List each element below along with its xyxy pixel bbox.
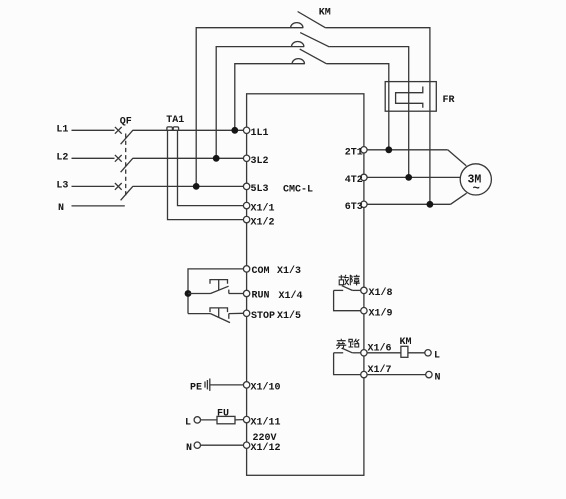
svg-text:L2: L2 [56, 153, 68, 164]
label KM (coil) [400, 337, 412, 348]
label 3L2 [251, 156, 269, 167]
wire riser L2 to KM contact 2 [216, 47, 304, 159]
svg-text:N: N [58, 203, 64, 214]
wire X1/7 to N [367, 374, 426, 376]
wire L1 to TA1 and 1L1 [133, 129, 244, 131]
breaker QF pole 3 [115, 183, 133, 200]
junction 6T3/FR [427, 201, 434, 208]
terminal STOP X1/5 [243, 310, 249, 316]
wire FR to 4T2 junction [408, 82, 410, 178]
fuse FU [217, 416, 235, 423]
svg-text:QF: QF [120, 116, 132, 127]
wire 6T3 row [367, 203, 450, 205]
svg-text:X1/10: X1/10 [251, 382, 281, 394]
wire 6T3 to motor [451, 193, 467, 204]
svg-text:~: ~ [473, 181, 480, 195]
svg-text:RUN: RUN [252, 291, 270, 302]
terminal 4T2 [361, 174, 367, 180]
svg-text:L: L [434, 351, 440, 362]
svg-text:TA1: TA1 [166, 115, 184, 126]
wire KM contact 3 to FR [327, 64, 389, 82]
junction 2T1/FR [385, 146, 392, 153]
push button STOP (NC) [188, 308, 243, 323]
label COM X1/3 [252, 265, 302, 277]
label X1/7 [368, 364, 392, 376]
wire L2 to 3L2 [133, 157, 244, 159]
terminal X1/6 [361, 350, 367, 356]
wire L3 to 5L3 [133, 185, 244, 187]
terminal X1/2 [243, 216, 249, 222]
junction on L2 [213, 155, 220, 162]
node L2 label [56, 153, 68, 164]
terminal RUN X1/4 [243, 290, 249, 296]
terminal 5L3 [243, 183, 249, 189]
label X1/2 [251, 216, 275, 228]
wire N to X1/12 [201, 444, 244, 446]
breaker QF label [120, 116, 132, 127]
wire TA1 secondary to X1/1 [178, 131, 244, 206]
label 6T3 [345, 202, 363, 213]
motor 3M [460, 164, 491, 195]
svg-text:X1/5: X1/5 [277, 310, 301, 322]
ground PE symbol [205, 379, 210, 391]
breaker QF linkage (dashed) [125, 134, 127, 198]
wire 4T2 row [367, 176, 460, 178]
svg-text:CMC-L: CMC-L [283, 184, 313, 195]
svg-text:1L1: 1L1 [251, 128, 269, 139]
terminal 3L2 [243, 155, 249, 161]
wire X1/6 to KM coil [367, 352, 401, 354]
label X1/11 [251, 416, 281, 428]
svg-text:N: N [435, 372, 441, 383]
label CMC-L [283, 184, 313, 195]
label X1/10 [251, 382, 281, 394]
node N (right) [426, 371, 432, 377]
label FU [217, 408, 229, 419]
contactor KM contact 3 [292, 49, 327, 64]
wire FR to 6T3 junction [429, 82, 431, 205]
terminal COM X1/3 [243, 266, 249, 272]
label 220V [253, 433, 277, 444]
terminal X1/11 [243, 416, 249, 422]
terminal X1/12 [243, 442, 249, 448]
wire PE to X1/10 [210, 384, 244, 386]
wire FR to 2T1 junction [388, 82, 390, 150]
svg-text:KM: KM [400, 337, 412, 348]
svg-text:L1: L1 [56, 125, 68, 136]
terminal X1/9 [361, 308, 367, 314]
svg-text:3L2: 3L2 [251, 156, 269, 167]
label KM [319, 8, 331, 19]
svg-text:4T2: 4T2 [345, 175, 363, 186]
label L [185, 418, 191, 429]
svg-text:L3: L3 [56, 181, 68, 192]
svg-text:STOP: STOP [251, 311, 275, 322]
svg-text:X1/12: X1/12 [251, 442, 281, 454]
svg-text:5L3: 5L3 [251, 184, 269, 195]
svg-text:FU: FU [217, 408, 229, 419]
svg-text:X1/8: X1/8 [369, 287, 393, 299]
svg-text:2T1: 2T1 [345, 147, 363, 158]
wire COM loop [188, 269, 243, 314]
wire TA1 secondary to X1/2 [168, 131, 244, 220]
svg-text:X1/3: X1/3 [277, 265, 301, 277]
node L (control supply) [194, 417, 200, 423]
terminal X1/7 [361, 371, 367, 377]
label pang lu (bypass) [336, 339, 359, 349]
terminal X1/10 [243, 382, 249, 388]
main box CMC-L [247, 94, 364, 476]
node N (control supply) [194, 442, 200, 448]
svg-text:X1/1: X1/1 [251, 202, 275, 214]
wire L2 input [72, 157, 115, 159]
svg-text:X1/11: X1/11 [251, 416, 281, 428]
wire 2T1 row [367, 149, 448, 151]
breaker QF pole 2 [115, 155, 133, 172]
svg-text:X1/2: X1/2 [251, 216, 275, 228]
wire riser L1 to KM contact 3 [235, 64, 305, 131]
coil KM [401, 346, 408, 357]
current transformer TA1 [167, 127, 179, 130]
terminal 6T3 [361, 201, 367, 207]
label PE [190, 383, 202, 394]
fault contact (gu zhang) [334, 286, 361, 311]
label 3M [468, 173, 482, 195]
contactor KM contact 1 [291, 12, 326, 28]
junction on L3 [193, 183, 200, 190]
junction on L1 [231, 127, 238, 134]
thermal relay FR [385, 82, 436, 112]
svg-text:FR: FR [443, 95, 455, 106]
label 5L3 [251, 184, 269, 195]
label TA1 [166, 115, 184, 126]
label gu zhang (fault) [339, 275, 360, 286]
svg-text:X1/4: X1/4 [279, 290, 303, 302]
label 4T2 [345, 175, 363, 186]
wire N input [72, 205, 125, 207]
svg-text:X1/9: X1/9 [369, 307, 393, 319]
label 1L1 [251, 128, 269, 139]
node N label [58, 203, 64, 214]
label X1/9 [369, 307, 393, 319]
node L3 label [56, 181, 68, 192]
terminal 2T1 [361, 147, 367, 153]
push button RUN (NO) [188, 280, 243, 294]
node L (right) [425, 350, 431, 356]
wire L3 input [72, 185, 115, 187]
breaker QF pole 1 [115, 127, 133, 144]
wire L to fuse [201, 419, 218, 421]
wire riser L3 to KM contact 1 [196, 28, 303, 187]
svg-text:COM: COM [252, 266, 270, 277]
terminal X1/1 [243, 202, 249, 208]
label X1/1 [251, 202, 275, 214]
bypass contact (pang lu) [334, 348, 361, 375]
contactor KM contact 2 [292, 33, 330, 47]
svg-text:L: L [185, 418, 191, 429]
label RUN X1/4 [252, 290, 303, 302]
node L1 label [56, 125, 68, 136]
label N (right) [435, 372, 441, 383]
wire coil to L [408, 352, 425, 354]
junction on COM loop [185, 290, 192, 297]
wire KM contact 1 to FR [325, 28, 430, 82]
label FR [443, 95, 455, 106]
svg-text:N: N [186, 443, 192, 454]
terminal X1/8 [361, 287, 367, 293]
terminal 1L1 [243, 127, 249, 133]
junction 4T2/FR [405, 174, 412, 181]
label X1/12 [251, 442, 281, 454]
label L (right) [434, 351, 440, 362]
label STOP X1/5 [251, 310, 301, 322]
wire L1 input [72, 129, 115, 131]
label X1/6 [368, 342, 392, 354]
wire fuse to X1/11 [235, 419, 243, 421]
wire 2T1 to motor [448, 150, 467, 166]
svg-text:KM: KM [319, 8, 331, 19]
label X1/8 [369, 287, 393, 299]
svg-text:PE: PE [190, 383, 202, 394]
label 2T1 [345, 147, 363, 158]
label N [186, 443, 192, 454]
wire KM contact 2 to FR [329, 47, 408, 82]
svg-text:6T3: 6T3 [345, 202, 363, 213]
